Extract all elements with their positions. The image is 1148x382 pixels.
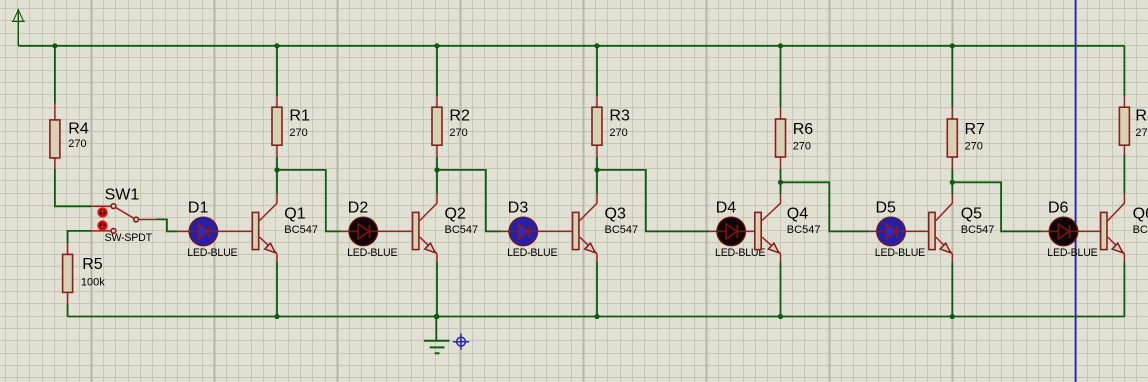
svg-text:270: 270	[965, 141, 983, 153]
svg-text:Q3: Q3	[605, 206, 626, 223]
svg-text:270: 270	[68, 138, 86, 150]
svg-text:Q1: Q1	[284, 206, 305, 223]
svg-text:270: 270	[1135, 127, 1148, 139]
svg-text:270: 270	[289, 127, 307, 139]
svg-text:LED-BLUE: LED-BLUE	[347, 247, 397, 259]
svg-text:SW-SPDT: SW-SPDT	[105, 232, 153, 244]
svg-text:270: 270	[793, 141, 811, 153]
svg-text:BC547: BC547	[1133, 224, 1148, 236]
svg-text:BC547: BC547	[284, 224, 318, 236]
svg-text:Q6: Q6	[1133, 206, 1148, 223]
svg-text:R8: R8	[1135, 108, 1148, 125]
svg-text:R1: R1	[289, 108, 310, 125]
svg-text:R2: R2	[449, 108, 470, 125]
svg-text:R6: R6	[793, 121, 814, 138]
svg-text:Q4: Q4	[787, 206, 808, 223]
svg-text:SW1: SW1	[105, 187, 140, 204]
svg-text:270: 270	[449, 127, 467, 139]
svg-text:LED-BLUE: LED-BLUE	[187, 247, 237, 259]
svg-text:LED-BLUE: LED-BLUE	[507, 247, 557, 259]
svg-text:270: 270	[609, 127, 627, 139]
svg-text:Q5: Q5	[961, 206, 982, 223]
svg-text:D2: D2	[348, 199, 369, 216]
svg-text:R5: R5	[82, 256, 103, 273]
svg-text:Q2: Q2	[445, 206, 466, 223]
svg-text:BC547: BC547	[445, 224, 479, 236]
svg-text:LED-BLUE: LED-BLUE	[1047, 247, 1097, 259]
svg-text:BC547: BC547	[961, 224, 995, 236]
svg-text:R3: R3	[609, 108, 630, 125]
svg-text:D4: D4	[716, 199, 737, 216]
svg-text:R7: R7	[965, 121, 986, 138]
svg-text:D5: D5	[876, 199, 897, 216]
svg-text:D6: D6	[1048, 199, 1069, 216]
svg-text:BC547: BC547	[605, 224, 639, 236]
svg-text:LED-BLUE: LED-BLUE	[875, 247, 925, 259]
svg-text:100k: 100k	[81, 277, 105, 289]
svg-text:D1: D1	[188, 199, 209, 216]
svg-text:BC547: BC547	[787, 224, 821, 236]
svg-text:D3: D3	[508, 199, 529, 216]
svg-text:R4: R4	[68, 121, 89, 138]
